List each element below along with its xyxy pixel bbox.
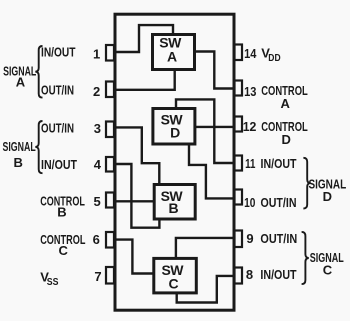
svg-text:IN/OUT: IN/OUT <box>41 157 77 172</box>
pin 14 stub <box>235 45 243 61</box>
pin 12 stub <box>235 117 243 132</box>
svg-text:IN/OUT: IN/OUT <box>41 45 76 60</box>
pin 4 stub <box>106 157 114 172</box>
svg-text:SS: SS <box>47 277 59 288</box>
svg-text:A: A <box>167 49 177 65</box>
svg-text:11: 11 <box>245 156 255 171</box>
svg-text:B: B <box>57 205 66 220</box>
pin 5 stub <box>106 193 114 208</box>
pin 7 stub <box>106 267 114 284</box>
svg-text:5: 5 <box>93 194 100 209</box>
svg-text:A: A <box>281 96 291 111</box>
svg-text:D: D <box>282 132 291 147</box>
svg-text:OUT/IN: OUT/IN <box>41 82 74 97</box>
svg-text:IN/OUT: IN/OUT <box>261 156 297 171</box>
switch SW A box <box>153 35 195 70</box>
svg-text:7: 7 <box>94 269 101 284</box>
wire pin12 CONTROL D to SW D right <box>195 126 235 128</box>
svg-text:12: 12 <box>243 119 257 134</box>
wire pin10 to SW D bottom <box>189 143 235 198</box>
pin 9 stub <box>235 231 243 248</box>
brace signal C <box>302 232 309 284</box>
svg-text:IN/OUT: IN/OUT <box>260 267 296 282</box>
svg-text:C: C <box>59 243 69 258</box>
pin 2 stub <box>106 82 114 98</box>
svg-text:SIGNAL: SIGNAL <box>3 139 36 154</box>
svg-text:D: D <box>323 189 332 204</box>
wire pin9 to SW C top <box>176 238 235 259</box>
IC package outline U1 <box>115 14 234 310</box>
switch SW D box <box>153 109 195 145</box>
switch SW C box <box>154 258 197 293</box>
wire pin4 to SW B bottom <box>114 164 159 228</box>
svg-text:A: A <box>16 75 26 90</box>
svg-text:3: 3 <box>94 121 101 136</box>
brace signal B <box>35 121 42 173</box>
svg-text:B: B <box>14 155 23 170</box>
svg-text:OUT/IN: OUT/IN <box>261 195 297 210</box>
svg-text:2: 2 <box>93 84 100 99</box>
svg-text:DD: DD <box>268 53 280 64</box>
svg-text:10: 10 <box>244 195 255 210</box>
wire pin11 to SW D top <box>176 99 235 163</box>
svg-text:B: B <box>168 200 178 216</box>
svg-text:8: 8 <box>246 267 253 282</box>
wire pin13 CONTROL A to SW A right <box>195 52 235 89</box>
wire pin8 to SW C bottom <box>177 276 235 303</box>
pin 8 stub <box>235 268 243 284</box>
svg-text:OUT/IN: OUT/IN <box>41 120 74 135</box>
svg-text:C: C <box>323 263 333 278</box>
pin 1 stub <box>106 45 114 61</box>
pin 10 stub <box>235 190 243 205</box>
svg-text:14: 14 <box>244 46 257 61</box>
svg-text:4: 4 <box>94 157 102 172</box>
switch SW B box <box>154 185 195 220</box>
wire pin2 to SW A bottom <box>114 68 175 90</box>
svg-text:6: 6 <box>93 232 100 247</box>
svg-text:D: D <box>170 125 180 141</box>
pin 13 stub <box>235 81 243 96</box>
pin 3 stub <box>106 122 114 138</box>
wire pin6 CONTROL C to SW C left <box>114 240 154 274</box>
svg-text:13: 13 <box>244 84 256 99</box>
svg-text:C: C <box>168 275 178 291</box>
wire pin5 CONTROL B to SW B left <box>114 200 154 202</box>
svg-text:1: 1 <box>93 46 100 61</box>
svg-text:9: 9 <box>246 231 253 246</box>
wire pin1 to SW A top <box>114 25 173 52</box>
pin 6 stub <box>106 232 114 248</box>
svg-text:OUT/IN: OUT/IN <box>260 231 297 246</box>
brace signal A <box>35 46 42 98</box>
wire pin3 to SW B top <box>114 127 159 185</box>
pin 11 stub <box>235 156 243 171</box>
brace signal D <box>303 158 310 209</box>
